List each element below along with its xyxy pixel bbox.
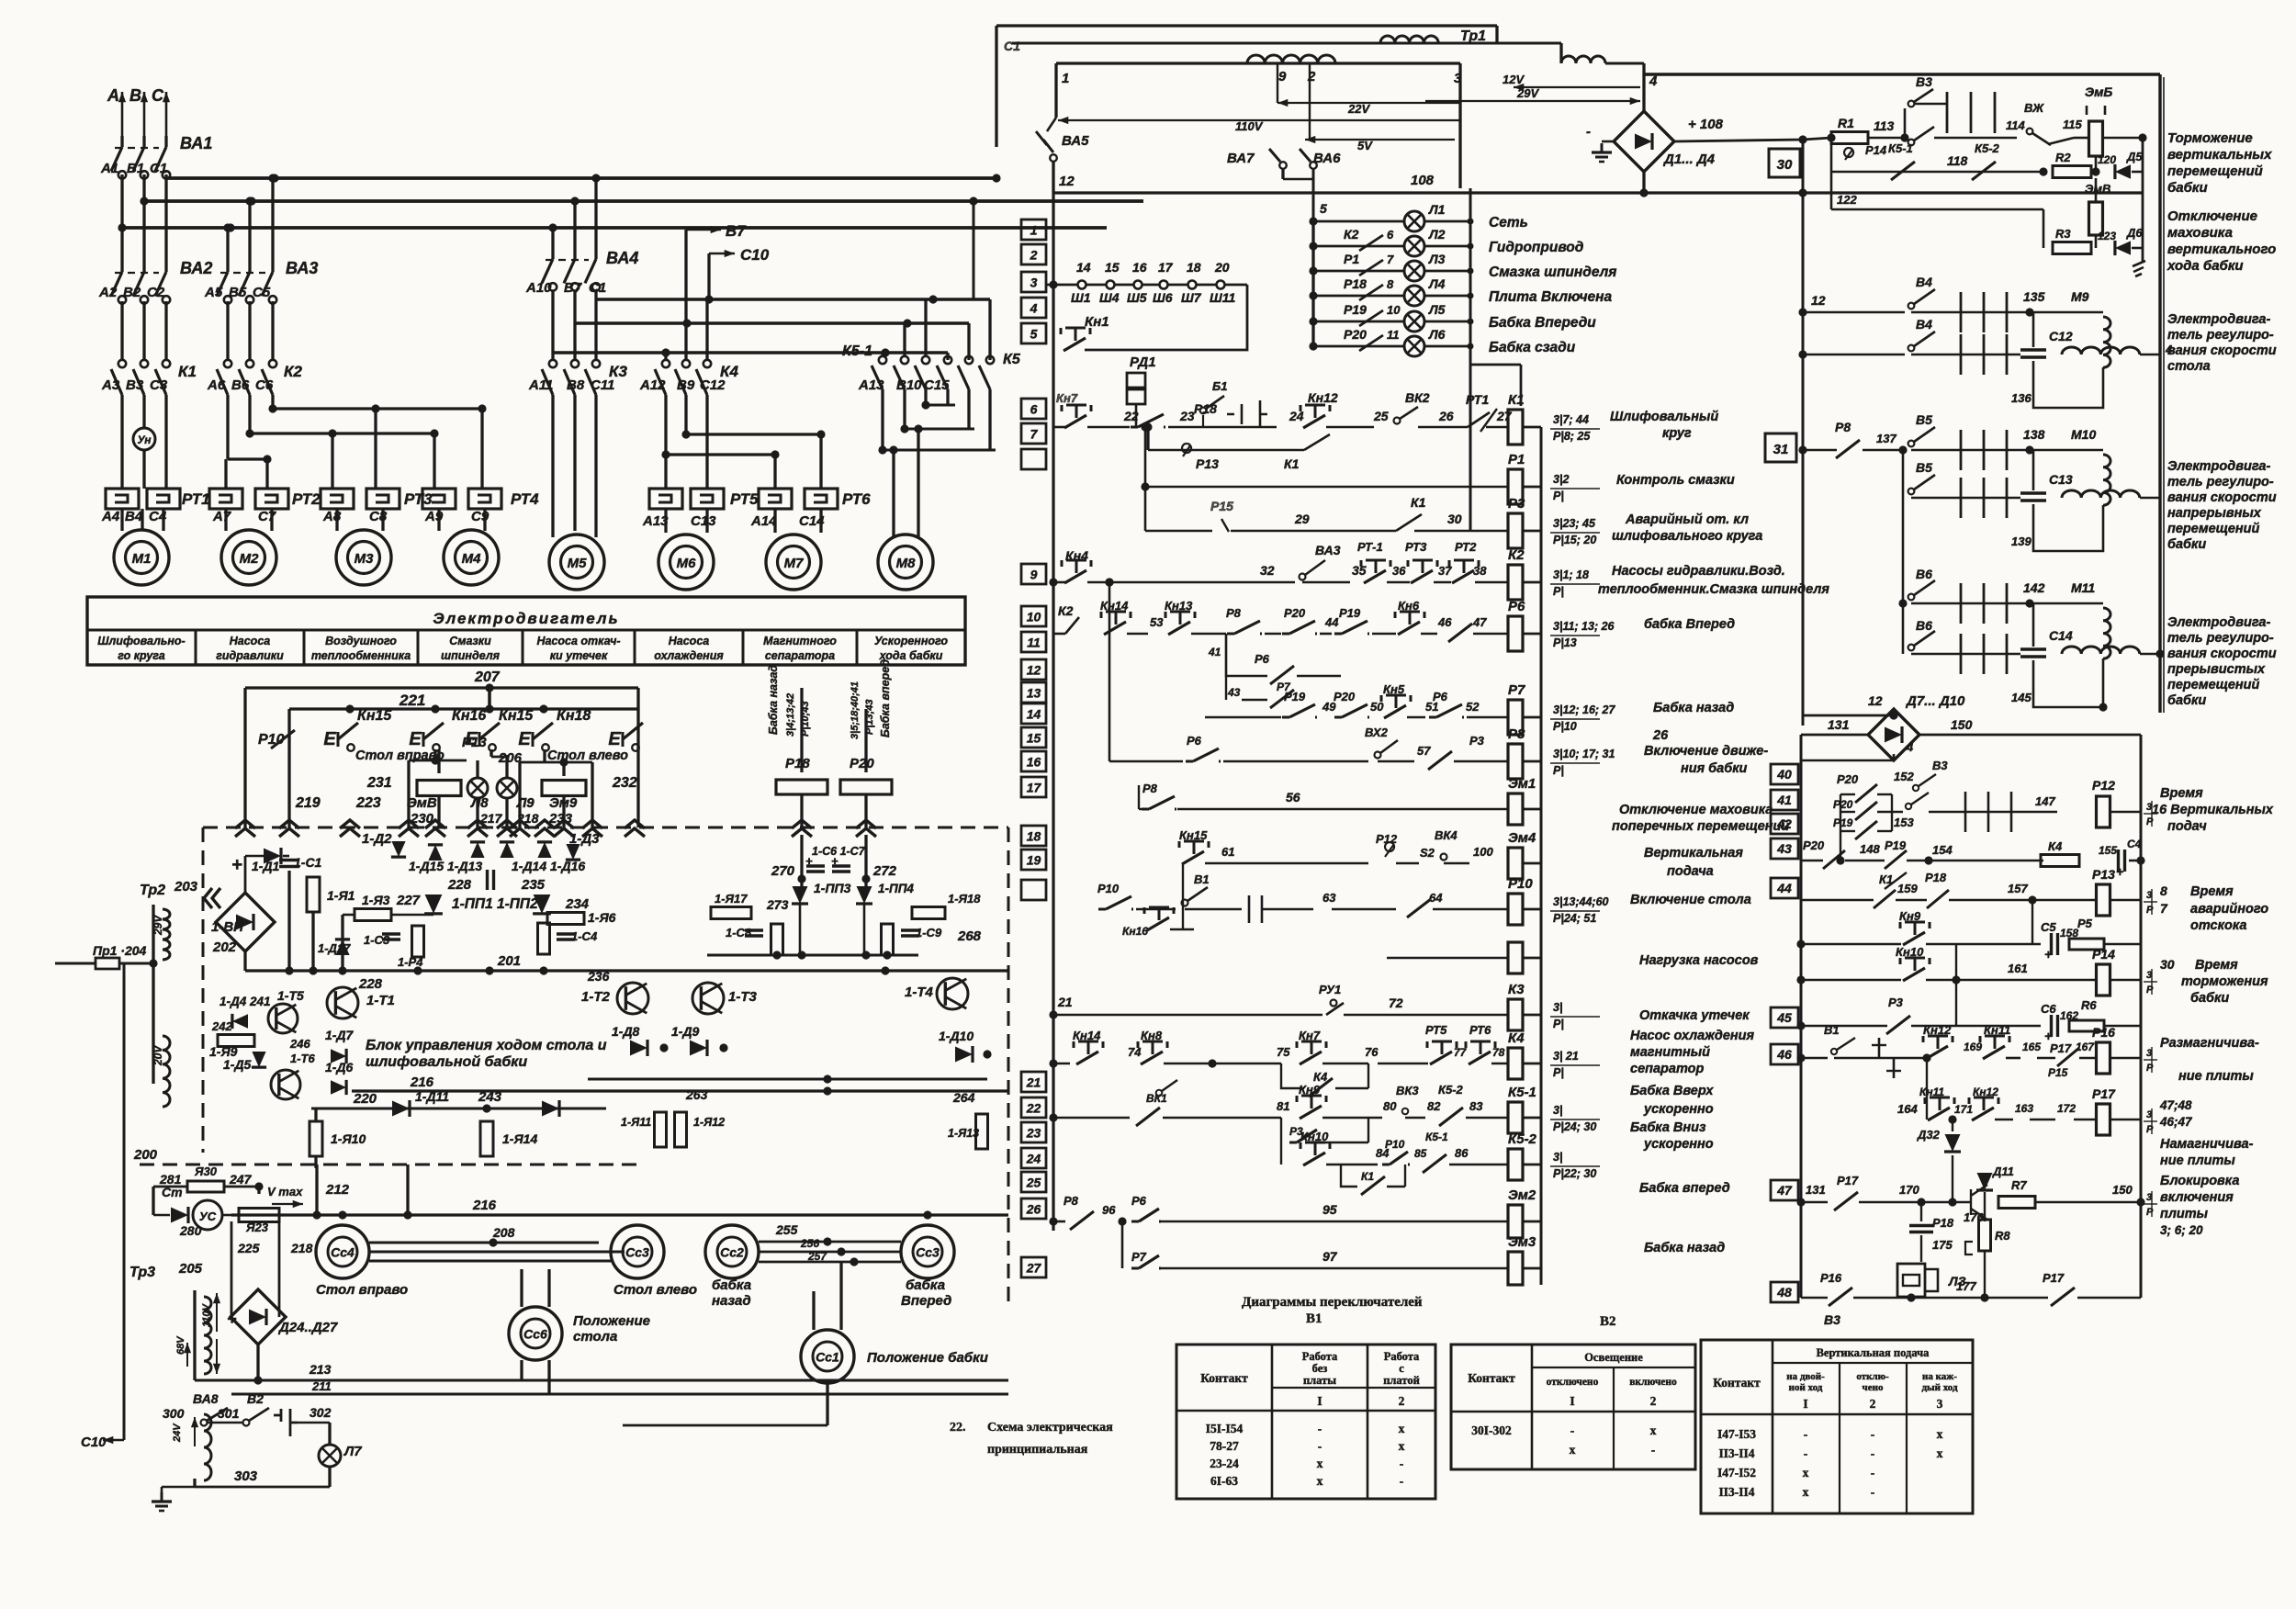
motor M8 (878, 534, 933, 590)
svg-text:-: - (1318, 1422, 1322, 1435)
svg-text:x: x (1803, 1485, 1809, 1499)
thyristor 1-PP2 (533, 895, 590, 914)
svg-text:1-Д8: 1-Д8 (612, 1024, 640, 1039)
svg-text:К5-1: К5-1 (1508, 1085, 1536, 1100)
svg-text:15: 15 (1027, 731, 1041, 746)
drop wires R23 (0, 0, 1, 1)
svg-text:Р10: Р10 (1508, 876, 1533, 892)
M11 winding (2030, 603, 2110, 658)
svg-text:110V: 110V (201, 1302, 212, 1327)
svg-text:24: 24 (1026, 1152, 1041, 1166)
svg-text:Р19: Р19 (1885, 838, 1907, 852)
svg-text:3|7; 44: 3|7; 44 (1553, 413, 1589, 426)
svg-text:В1: В1 (127, 161, 144, 176)
contactor K3 (542, 299, 627, 395)
svg-text:А8: А8 (322, 509, 342, 524)
label 4 right edge (2165, 343, 2173, 356)
gang bars v3 (1947, 92, 1995, 133)
svg-text:1-Р4: 1-Р4 (398, 955, 423, 969)
label B1 (1306, 1311, 1322, 1326)
contact annotation 3|7; 44 (1550, 413, 1600, 443)
M10 aux winding (2062, 490, 2160, 498)
svg-text:Р10: Р10 (1097, 882, 1120, 895)
rung M11 lower (1908, 618, 1947, 654)
svg-text:3: 3 (2146, 1109, 2152, 1120)
diode 1-D12 (542, 1100, 559, 1117)
svg-text:76: 76 (1365, 1045, 1379, 1059)
svg-text:подача: подача (1667, 864, 1714, 879)
resistors 1-R11 1-R12 1-R13 (0, 0, 1, 1)
svg-text:А2: А2 (98, 285, 118, 300)
wire 212 vertical (315, 1165, 318, 1215)
svg-text:228: 228 (447, 877, 472, 893)
svg-text:3| 21: 3| 21 (1553, 1050, 1579, 1063)
svg-text:48: 48 (1776, 1285, 1792, 1300)
tap wire B7 arrow (686, 222, 747, 323)
svg-text:Р|10: Р|10 (1553, 720, 1577, 733)
svg-text:1-Д7: 1-Д7 (325, 1028, 355, 1042)
svg-text:К5-2: К5-2 (1438, 1083, 1464, 1097)
coil P8 (1508, 726, 1541, 779)
svg-text:РТ6: РТ6 (842, 490, 871, 508)
svg-text:Р20: Р20 (850, 756, 874, 771)
svg-text:Я23: Я23 (245, 1221, 269, 1234)
svg-text:161: 161 (2008, 962, 2028, 975)
svg-text:Сеть: Сеть (1489, 215, 1528, 231)
wires P18 P20 coils (800, 688, 803, 772)
svg-text:Кн7: Кн7 (1056, 391, 1078, 405)
svg-text:теплообменник.Смазка шпинделя: теплообменник.Смазка шпинделя (1598, 582, 1829, 597)
rung 55 Kn6 (0, 0, 1, 1)
ground bottom left (0, 0, 1, 1)
svg-text:6: 6 (1030, 402, 1038, 417)
switch V3 upper (1905, 74, 1933, 138)
svg-text:Р|: Р| (1553, 764, 1564, 777)
wire 225 (231, 1221, 233, 1317)
svg-text:Стол влево: Стол влево (613, 1282, 697, 1298)
svg-text:принципиальная: принципиальная (987, 1443, 1088, 1457)
cap C13 (2020, 450, 2073, 501)
29V arrow (1425, 86, 1640, 105)
transistor 1-T4 (905, 978, 968, 1009)
svg-text:x: x (1650, 1423, 1657, 1437)
svg-text:x: x (1317, 1474, 1323, 1488)
svg-text:7: 7 (1387, 253, 1394, 266)
R23 to bridge wires (278, 1222, 281, 1317)
svg-text:61: 61 (1221, 845, 1234, 859)
svg-text:75: 75 (1277, 1045, 1290, 1059)
svg-text:1-ВП: 1-ВП (211, 919, 244, 935)
svg-text:В1: В1 (1194, 872, 1210, 886)
svg-text:3: 3 (1937, 1397, 1943, 1411)
svg-text:1-Я17: 1-Я17 (715, 892, 748, 906)
right ladder right rail (2140, 735, 2143, 1298)
sub vertical 1288 Kn15 (1182, 863, 1184, 929)
Tr1 secondary box (1056, 63, 1460, 188)
rung Kn10 (1796, 944, 2141, 1026)
svg-text:Бабка назад: Бабка назад (767, 665, 780, 735)
label P20 row2 (1833, 798, 1853, 811)
descr braking text (2167, 130, 2272, 196)
motor M4 (444, 530, 499, 585)
rung K1 wire and contact RT1 (1418, 392, 1508, 432)
bridge 1-VP (211, 855, 275, 955)
transistor 1-T3 (692, 983, 758, 1014)
svg-text:ВК1: ВК1 (1146, 1092, 1167, 1105)
right ladder descriptions (2152, 786, 2274, 1237)
rung M11 top (1898, 498, 1947, 654)
svg-text:171: 171 (1954, 1103, 1973, 1116)
svg-text:Смазка шпинделя: Смазка шпинделя (1489, 264, 1616, 280)
wires under R23 (0, 0, 1, 1)
svg-text:97: 97 (1322, 1249, 1338, 1264)
svg-text:Р1: Р1 (1508, 452, 1525, 467)
svg-text:Сс6: Сс6 (523, 1327, 547, 1342)
svg-text:Р18: Р18 (1932, 1216, 1954, 1230)
svg-text:234: 234 (565, 896, 590, 912)
svg-text:x: x (1937, 1427, 1943, 1441)
svg-text:236: 236 (587, 969, 610, 984)
svg-text:вания скорости: вания скорости (2167, 490, 2277, 505)
control block dashed border (140, 827, 1008, 1304)
svg-text:211: 211 (311, 1379, 332, 1393)
diode D32 (1917, 1115, 1961, 1152)
thyristor 1-PP4 (856, 882, 914, 955)
68V label arrow (184, 1343, 191, 1367)
breaker VA5 (1036, 118, 1089, 193)
svg-text:В2: В2 (247, 1391, 264, 1406)
knife switch E5 (608, 723, 643, 751)
tap wire C10 arrow (709, 246, 770, 299)
svg-text:Р17: Р17 (2043, 1271, 2065, 1285)
svg-text:Шлифовально-: Шлифовально- (97, 635, 185, 647)
rung 47 line (1796, 1174, 1953, 1210)
left rail down (0, 0, 1, 1)
svg-text:Р: Р (2146, 816, 2154, 827)
svg-text:I: I (1570, 1394, 1574, 1408)
svg-text:17: 17 (1158, 260, 1174, 275)
thermal relay PT5 (649, 489, 759, 509)
R2 120 D5 (2053, 151, 2091, 178)
svg-text:Д5: Д5 (2126, 150, 2143, 163)
rung 48 (1801, 1271, 2141, 1306)
M11 aux winding (2062, 647, 2165, 658)
svg-text:74: 74 (1128, 1045, 1142, 1059)
svg-text:РТ4: РТ4 (511, 490, 539, 508)
svg-text:А: А (107, 86, 119, 105)
svg-text:3|: 3| (1553, 1151, 1562, 1164)
svg-text:R7: R7 (2011, 1178, 2027, 1192)
svg-text:247: 247 (229, 1172, 253, 1187)
branch vertical 1247 (1141, 422, 1149, 531)
svg-text:26: 26 (1026, 1202, 1041, 1217)
svg-text:В10: В10 (896, 377, 922, 393)
svg-text:1-Д9: 1-Д9 (671, 1024, 700, 1039)
svg-text:x: x (1803, 1466, 1809, 1480)
selsyn Cc3 row lines (0, 0, 1, 1)
svg-text:1-Я18: 1-Я18 (948, 892, 981, 906)
svg-text:3|5;18;40;41: 3|5;18;40;41 (850, 681, 861, 739)
sub contact K1 under (1341, 1165, 1405, 1195)
svg-text:23-24: 23-24 (1210, 1457, 1239, 1470)
svg-text:18: 18 (1187, 260, 1201, 275)
circuit breaker BA2 (111, 259, 212, 305)
svg-text:Бабка сзади: Бабка сзади (1489, 340, 1576, 355)
svg-text:бабки: бабки (2167, 693, 2206, 708)
svg-text:Насос охлаждения: Насос охлаждения (1630, 1029, 1755, 1043)
svg-text:РТ2: РТ2 (292, 490, 321, 508)
transistor 1-T6 (271, 1037, 316, 1099)
motor table title (433, 610, 619, 627)
svg-text:В4: В4 (1916, 275, 1932, 289)
bus B1 wire (140, 174, 1143, 299)
ladder left bus (0, 0, 1, 1)
coil K2 (1508, 547, 1541, 600)
wires lower left rail (133, 1147, 158, 1163)
rung Kn9 (1796, 900, 2032, 949)
breaker VA6 (1300, 149, 1341, 169)
gang bars M9 (1947, 292, 2034, 332)
svg-text:15: 15 (1105, 260, 1120, 275)
svg-text:ВА1: ВА1 (180, 134, 212, 152)
svg-text:257: 257 (807, 1250, 827, 1263)
12V arrow (1503, 73, 1640, 91)
svg-text:В6: В6 (231, 377, 250, 393)
svg-text:1-С4: 1-С4 (571, 929, 598, 943)
svg-text:26: 26 (1652, 728, 1669, 743)
svg-text:80: 80 (1383, 1099, 1397, 1113)
label 115 and Em5 coil (2063, 84, 2147, 156)
svg-text:круг: круг (1662, 426, 1692, 441)
svg-text:110V: 110V (1235, 119, 1264, 133)
svg-text:Д7... Д10: Д7... Д10 (1905, 693, 1965, 709)
svg-text:ной ход: ной ход (1789, 1382, 1823, 1393)
lamp row Л6 Бабка сзади (1309, 327, 1575, 356)
svg-text:А11: А11 (528, 377, 553, 393)
rung K1 grinding wheel (1053, 390, 1454, 428)
svg-text:М8: М8 (896, 556, 916, 571)
transformer Tr2 winding (140, 879, 220, 1107)
terminals A2 B2 C2 (98, 285, 165, 300)
svg-text:Р|22; 30: Р|22; 30 (1553, 1167, 1596, 1180)
svg-text:Ш5: Ш5 (1127, 290, 1147, 305)
svg-text:Сс1: Сс1 (816, 1350, 839, 1365)
chevrons P18 P20 (792, 820, 876, 837)
labels RT1 RT3 RT2 (1357, 540, 1477, 554)
svg-text:+: + (231, 855, 242, 875)
sub contact K4 VK1 (1146, 1063, 1368, 1105)
terminal boxes 40-48 (1771, 764, 1798, 1302)
svg-text:ускоренно: ускоренно (1643, 1102, 1714, 1117)
svg-text:122: 122 (1837, 193, 1857, 207)
svg-text:ние плиты: ние плиты (2160, 1153, 2235, 1168)
resistor 1-R14 (480, 1121, 537, 1156)
rung K5-2 (1300, 1130, 1508, 1173)
svg-text:Р3: Р3 (1469, 734, 1485, 748)
svg-text:2: 2 (1650, 1394, 1657, 1408)
sub wires PP1 PP2 (0, 0, 1, 1)
svg-text:47: 47 (1472, 615, 1487, 629)
svg-text:E: E (518, 729, 531, 749)
svg-text:вертикальных: вертикальных (2167, 147, 2272, 163)
coil K5-2 (1508, 1131, 1541, 1180)
wire 5 lamp feed (1313, 201, 1327, 346)
selsyn bus 216b (231, 1198, 1008, 1220)
svg-text:1: 1 (1062, 71, 1069, 86)
text block control unit (366, 1038, 607, 1070)
svg-text:47: 47 (1776, 1183, 1793, 1198)
wire 9 tap down (0, 0, 1, 1)
Tr1 tap labels (1062, 69, 1658, 89)
svg-text:Р5: Р5 (2077, 917, 2093, 930)
svg-text:Сс2: Сс2 (720, 1245, 744, 1260)
svg-text:Д11: Д11 (1992, 1165, 2014, 1178)
svg-text:Р7: Р7 (1131, 1250, 1147, 1264)
svg-text:131: 131 (1806, 1183, 1826, 1197)
relay coil P20 (840, 709, 892, 827)
svg-text:торможения: торможения (2181, 974, 2268, 989)
text stol vlevo (547, 748, 628, 763)
svg-text:Р|8; 25: Р|8; 25 (1553, 430, 1591, 443)
svg-text:Бабка назад: Бабка назад (1653, 701, 1734, 715)
wire 207 top (245, 669, 638, 827)
svg-text:-: - (1400, 1457, 1404, 1470)
coil P6 (1508, 599, 1541, 651)
drop wires to PT2 PT3 PT4 (226, 409, 482, 489)
svg-text:6: 6 (1387, 228, 1394, 242)
table B3 (1701, 1340, 1973, 1513)
svg-text:242: 242 (211, 1019, 232, 1033)
svg-text:Кн16: Кн16 (452, 708, 486, 724)
svg-text:220: 220 (353, 1091, 377, 1107)
svg-text:вертикального: вертикального (2167, 242, 2276, 257)
EmV coil connections (2091, 156, 2099, 248)
svg-text:Кн15: Кн15 (357, 708, 392, 724)
svg-text:164: 164 (1897, 1102, 1918, 1116)
svg-text:М9: М9 (2071, 289, 2089, 304)
svg-text:В6: В6 (1916, 618, 1932, 633)
contact P20 row2 (1840, 793, 1929, 820)
wires BA3 to K2 (228, 301, 273, 360)
svg-text:Отключение: Отключение (2167, 208, 2257, 224)
svg-text:Р: Р (2146, 1124, 2154, 1135)
bridge D24 out right (0, 0, 1, 1)
terminals A13 B10 C15 (858, 377, 950, 393)
svg-text:Р15: Р15 (1210, 499, 1233, 513)
svg-text:Освещение: Освещение (1584, 1351, 1643, 1364)
svg-text:ВЖ: ВЖ (2024, 101, 2044, 115)
svg-text:РТ5: РТ5 (730, 490, 759, 508)
svg-text:-: - (1651, 1443, 1656, 1457)
diode 1-D8 (612, 1024, 669, 1056)
svg-text:РТ6: РТ6 (1469, 1023, 1491, 1037)
svg-text:1-ПП4: 1-ПП4 (878, 882, 914, 895)
svg-text:С10: С10 (81, 1435, 107, 1450)
svg-text:108: 108 (1411, 173, 1435, 188)
button Kn1 (1061, 314, 1109, 351)
svg-text:Р|: Р| (1553, 1066, 1564, 1079)
svg-text:Схема электрическая: Схема электрическая (987, 1421, 1113, 1435)
svg-text:150: 150 (2112, 1183, 2133, 1197)
svg-text:3: 3 (2146, 890, 2152, 901)
cap C5 and P5 (1956, 917, 2141, 962)
svg-text:256: 256 (800, 1237, 819, 1250)
R3 123 D6 rung (2043, 209, 2143, 255)
svg-text:Электродвигатель: Электродвигатель (433, 610, 619, 627)
svg-text:маховика: маховика (2167, 225, 2233, 241)
svg-text:63: 63 (1322, 891, 1336, 905)
svg-text:Кн11: Кн11 (1919, 1086, 1944, 1098)
wire Cc1 up (623, 1383, 827, 1425)
svg-text:40: 40 (1776, 767, 1792, 782)
svg-text:Кн15: Кн15 (1179, 828, 1208, 842)
svg-text:Л8: Л8 (470, 795, 489, 811)
rung Em4 (1179, 828, 1493, 864)
svg-text:+ 108: + 108 (1688, 117, 1724, 132)
svg-text:221: 221 (399, 692, 425, 709)
svg-text:26: 26 (1438, 409, 1454, 423)
svg-text:Р20: Р20 (1803, 838, 1825, 852)
svg-text:131: 131 (1828, 717, 1850, 732)
svg-text:Р3: Р3 (1888, 996, 1904, 1009)
svg-text:Р19: Р19 (1833, 816, 1853, 829)
bus C1 wire (166, 174, 1001, 182)
coil Zp (1508, 942, 1541, 973)
svg-text:Кн14: Кн14 (1100, 599, 1129, 613)
svg-text:R3: R3 (2055, 227, 2071, 241)
svg-text:-: - (1804, 1427, 1808, 1441)
right bus up to lamp bus (0, 0, 1, 1)
svg-text:30: 30 (1447, 512, 1462, 526)
gang bars M10 lower (1947, 478, 2020, 518)
svg-text:Кн9: Кн9 (1299, 1083, 1321, 1097)
svg-text:Тр1: Тр1 (1460, 28, 1486, 44)
thermal relay PT2 (209, 489, 321, 509)
svg-text:30: 30 (1777, 157, 1793, 173)
rung 43 (1801, 838, 2145, 879)
coil K1 (1508, 392, 1541, 444)
motor table frame (87, 597, 965, 665)
wire 114 VZh (1934, 101, 2044, 138)
svg-text:47;48: 47;48 (2159, 1098, 2192, 1112)
svg-text:Контакт: Контакт (1713, 1376, 1761, 1390)
svg-text:В1: В1 (1306, 1311, 1322, 1326)
svg-text:213: 213 (309, 1362, 332, 1377)
svg-text:Р1: Р1 (1344, 252, 1359, 266)
svg-text:Кн16: Кн16 (1122, 925, 1148, 938)
svg-text:Нагрузка насосов: Нагрузка насосов (1639, 953, 1759, 968)
svg-text:Р6: Р6 (1255, 652, 1270, 666)
rung Zp coil (1387, 957, 1508, 960)
svg-text:Л1: Л1 (1428, 202, 1446, 217)
svg-text:1-Д4 241: 1-Д4 241 (219, 995, 271, 1008)
svg-text:Диаграммы переключателей: Диаграммы переключателей (1242, 1295, 1423, 1310)
svg-text:Р8: Р8 (1835, 420, 1851, 434)
sub branch P13 (1143, 422, 1330, 471)
svg-text:100: 100 (1473, 845, 1493, 859)
svg-text:Р16: Р16 (1820, 1271, 1842, 1285)
resistor 1-R6 right (547, 913, 584, 925)
descr M9 text (2167, 312, 2277, 374)
svg-text:Я30: Я30 (194, 1165, 218, 1178)
selsyn Cc1 (801, 1330, 988, 1383)
svg-text:227: 227 (396, 893, 421, 908)
svg-text:23: 23 (1179, 409, 1195, 423)
svg-text:12V: 12V (1503, 73, 1525, 86)
svg-text:К5-1: К5-1 (1888, 141, 1913, 155)
svg-text:2: 2 (1307, 69, 1316, 84)
svg-text:1-Я10: 1-Я10 (331, 1131, 366, 1146)
